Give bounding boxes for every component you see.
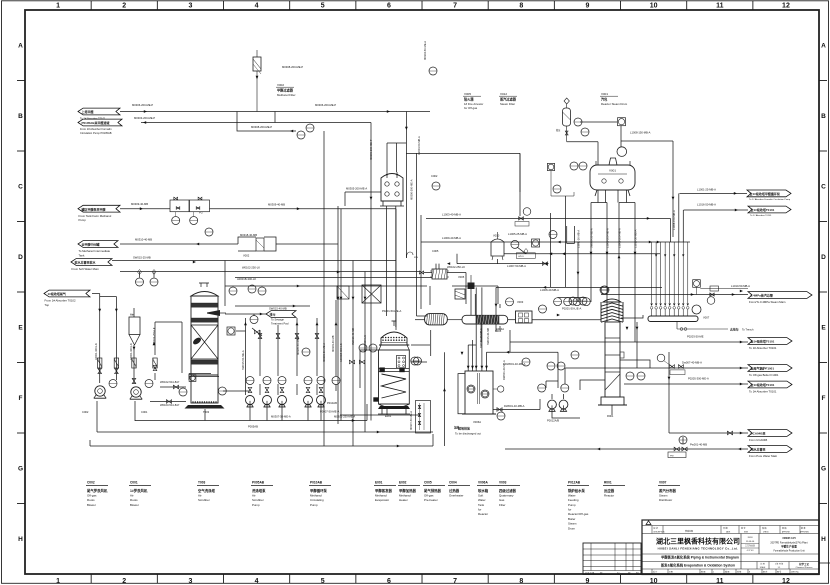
svg-text:From 1# Absorber Formalin: From 1# Absorber Formalin — [80, 127, 112, 131]
svg-text:Circulation Pump P0105AB: Circulation Pump P0105AB — [80, 131, 112, 135]
svg-text:空气洗涤塔: 空气洗涤塔 — [198, 488, 216, 493]
svg-text:Methanol: Methanol — [375, 493, 387, 497]
svg-text:汽包: 汽包 — [601, 97, 608, 102]
svg-text:E: E — [18, 325, 23, 332]
svg-text:去1#吸收塔T0101: 去1#吸收塔T0101 — [751, 339, 775, 344]
svg-text:纯水总管来: 纯水总管来 — [751, 447, 767, 452]
svg-text:SW015-50-ME-A: SW015-50-ME-A — [241, 350, 245, 370]
svg-text:P005AB: P005AB — [248, 425, 258, 429]
svg-text:W0103-50-LB-P: W0103-50-LB-P — [160, 403, 179, 407]
svg-text:From Pure Water Main: From Pure Water Main — [749, 454, 778, 458]
svg-text:W0102-250-LK: W0102-250-LK — [242, 266, 260, 270]
svg-text:L1011-50-MB-A: L1011-50-MB-A — [577, 230, 581, 248]
svg-text:M2: M2 — [600, 572, 602, 574]
svg-text:去甲醇中间罐: 去甲醇中间罐 — [82, 242, 100, 247]
svg-text:排污: 排污 — [270, 312, 276, 317]
svg-text:Pump: Pump — [79, 218, 87, 222]
svg-text:甲醇循环泵: 甲醇循环泵 — [310, 488, 328, 493]
svg-text:To Trench: To Trench — [742, 328, 754, 332]
svg-text:Steam: Steam — [568, 522, 577, 526]
svg-text:DESCRIPTION: DESCRIPTION — [654, 531, 666, 533]
svg-text:过热器: 过热器 — [449, 488, 460, 493]
svg-text:1#罗茨风机: 1#罗茨风机 — [130, 488, 148, 493]
svg-text:Drum: Drum — [568, 526, 576, 530]
svg-text:甲醛生产装置: 甲醛生产装置 — [781, 545, 797, 549]
svg-text:Air: Air — [130, 313, 134, 317]
svg-text:M0309-40-MB: M0309-40-MB — [131, 202, 148, 206]
svg-text:V002: V002 — [243, 254, 250, 258]
svg-text:Heater: Heater — [399, 498, 408, 502]
svg-text:L1006-200-MB-A: L1006-200-MB-A — [606, 228, 610, 248]
svg-text:V007: V007 — [659, 480, 667, 484]
svg-text:P0012A/B: P0012A/B — [547, 419, 559, 423]
svg-text:SW015-25-MB: SW015-25-MB — [133, 256, 151, 260]
svg-text:To 1# Absorber T0101: To 1# Absorber T0101 — [750, 214, 772, 217]
svg-text:9: 9 — [585, 578, 589, 585]
svg-text:F: F — [19, 395, 23, 402]
svg-text:Formaldehyde Production Unit: Formaldehyde Production Unit — [773, 550, 804, 553]
svg-text:3: 3 — [188, 3, 192, 10]
svg-text:8: 8 — [519, 3, 523, 10]
svg-text:Soft: Soft — [478, 493, 483, 497]
svg-text:L1008-150-MB-A: L1008-150-MB-A — [630, 131, 651, 135]
svg-text:蒸发&氧化系统 Evaporation & Oxidati: 蒸发&氧化系统 Evaporation & Oxidation System — [661, 562, 735, 567]
svg-text:10: 10 — [650, 3, 658, 10]
svg-text:Reactor: Reactor — [604, 493, 614, 497]
svg-text:C004: C004 — [449, 480, 457, 484]
svg-text:C005: C005 — [424, 480, 432, 484]
svg-text:DWG No.: DWG No. — [791, 572, 800, 574]
svg-text:From 1# Absorber T0102: From 1# Absorber T0102 — [45, 299, 76, 303]
svg-text:200TPD Formaldehyde(37%) Plant: 200TPD Formaldehyde(37%) Plant — [770, 542, 808, 545]
svg-text:To 1# Absorber T0101: To 1# Absorber T0101 — [749, 346, 777, 350]
svg-text:8: 8 — [749, 572, 750, 574]
svg-text:V012: V012 — [500, 92, 507, 96]
svg-text:P0201-50-L/E-A: P0201-50-L/E-A — [562, 307, 581, 311]
svg-text:V001: V001 — [609, 169, 616, 173]
svg-text:P005AB: P005AB — [252, 480, 265, 484]
svg-text:湖北三里枫香科技有限公司: 湖北三里枫香科技有限公司 — [656, 537, 740, 546]
svg-text:V003: V003 — [499, 480, 507, 484]
svg-text:P010AB: P010AB — [327, 401, 337, 405]
svg-text:2018: 2018 — [748, 537, 754, 539]
svg-text:M0308-200-ME-P: M0308-200-ME-P — [282, 65, 303, 69]
svg-text:12: 12 — [782, 3, 790, 10]
svg-text:Pump: Pump — [568, 503, 576, 507]
svg-text:Reactor Steam Drum: Reactor Steam Drum — [601, 102, 628, 106]
svg-text:H: H — [821, 536, 826, 543]
svg-text:尾气罗茨风机: 尾气罗茨风机 — [86, 488, 108, 493]
svg-text:L1016-50-MB-A: L1016-50-MB-A — [697, 203, 716, 207]
svg-text:T003: T003 — [198, 480, 205, 484]
svg-text:Treatment Pool: Treatment Pool — [271, 322, 289, 326]
svg-text:G: G — [821, 466, 826, 473]
svg-text:11.05.06: 11.05.06 — [746, 541, 755, 543]
svg-text:Boiler: Boiler — [568, 517, 575, 521]
svg-text:5: 5 — [321, 578, 325, 585]
svg-text:4 27 43: 4 27 43 — [747, 550, 755, 552]
svg-text:C002: C002 — [87, 480, 95, 484]
svg-text:Pump: Pump — [310, 503, 318, 507]
svg-text:H: H — [18, 536, 23, 543]
svg-text:L1015-50-MB-A: L1015-50-MB-A — [634, 229, 638, 248]
svg-text:1:1: 1:1 — [778, 567, 781, 569]
svg-text:E001: E001 — [375, 480, 383, 484]
svg-text:UCA04B来: UCA04B来 — [751, 431, 767, 436]
svg-text:Top: Top — [45, 303, 50, 307]
svg-text:Filter: Filter — [499, 503, 505, 507]
svg-text:D: D — [821, 254, 826, 261]
svg-text:上塔甲醛: 上塔甲醛 — [82, 109, 94, 114]
svg-text:P012AB: P012AB — [568, 480, 581, 484]
svg-text:Scrubber: Scrubber — [252, 498, 264, 502]
svg-text:A0001-300-LK: A0001-300-LK — [94, 343, 98, 360]
svg-text:P0105AB来甲醛溶液: P0105AB来甲醛溶液 — [82, 120, 110, 125]
svg-text:C2003-50-MB-A: C2003-50-MB-A — [417, 136, 421, 155]
svg-text:Distributor: Distributor — [659, 498, 672, 502]
svg-text:Water: Water — [568, 493, 576, 497]
svg-text:From Soft Water Main: From Soft Water Main — [72, 267, 100, 271]
svg-text:四级过滤器: 四级过滤器 — [499, 488, 517, 493]
svg-text:R001: R001 — [604, 480, 612, 484]
svg-text:洗涤塔泵: 洗涤塔泵 — [252, 488, 266, 493]
svg-text:3.2: 3.2 — [617, 572, 619, 574]
svg-text:L1003-40-MB-A: L1003-40-MB-A — [442, 213, 461, 217]
svg-text:软水箱: 软水箱 — [478, 488, 489, 493]
svg-text:DW001-40-MB-A: DW001-40-MB-A — [502, 360, 506, 380]
svg-text:M0306-200-ME-P: M0306-200-ME-P — [315, 103, 336, 107]
svg-text:Water: Water — [478, 498, 486, 502]
svg-text:4: 4 — [255, 3, 259, 10]
svg-text:T003: T003 — [203, 410, 210, 414]
svg-text:软水总管来软水: 软水总管来软水 — [75, 260, 97, 265]
svg-text:Roots: Roots — [130, 498, 138, 502]
svg-text:Reactor: Reactor — [478, 512, 488, 516]
svg-text:B: B — [18, 113, 23, 120]
svg-text:蒸汽过滤器: 蒸汽过滤器 — [500, 97, 517, 102]
svg-text:M0307-50-ME-A: M0307-50-ME-A — [409, 411, 413, 430]
svg-text:Methanol: Methanol — [399, 493, 411, 497]
svg-text:SW009-50-MB-A: SW009-50-MB-A — [590, 228, 594, 248]
svg-text:V001: V001 — [601, 92, 608, 96]
svg-text:M0306-200-ME-A: M0306-200-ME-A — [410, 179, 414, 200]
svg-text:Feeding: Feeding — [568, 498, 579, 502]
svg-text:7: 7 — [453, 578, 457, 585]
svg-text:Air: Air — [198, 493, 202, 497]
svg-text:From/To 0.4MPa Steam Main: From/To 0.4MPa Steam Main — [749, 300, 786, 304]
svg-text:L1005-25-MB-A: L1005-25-MB-A — [508, 232, 527, 236]
svg-text:Tank: Tank — [79, 253, 86, 257]
svg-text:9: 9 — [585, 3, 589, 10]
svg-text:甲醇蒸发器: 甲醇蒸发器 — [375, 488, 393, 493]
svg-text:Overheater: Overheater — [449, 493, 463, 497]
svg-text:蒸汽分布器: 蒸汽分布器 — [659, 488, 677, 493]
svg-text:11: 11 — [716, 3, 724, 10]
svg-text:for Off-gas: for Off-gas — [464, 106, 478, 110]
svg-text:L1010-50-MB-A: L1010-50-MB-A — [731, 284, 750, 288]
svg-text:5: 5 — [321, 3, 325, 10]
svg-text:Evaporator: Evaporator — [375, 498, 389, 502]
svg-text:F: F — [822, 395, 826, 402]
svg-text:P0205-300-ME-A: P0205-300-ME-A — [688, 377, 709, 381]
svg-text:去1#吸收塔甲醛循环泵: 去1#吸收塔甲醛循环泵 — [750, 191, 780, 196]
svg-text:7: 7 — [453, 3, 457, 10]
svg-text:尾气预热器: 尾气预热器 — [423, 488, 442, 493]
svg-text:SCALE: SCALE — [760, 566, 766, 569]
svg-text:V006A: V006A — [478, 480, 488, 484]
svg-text:2: 2 — [122, 3, 126, 10]
svg-text:就地排放: 就地排放 — [458, 426, 471, 431]
svg-text:3: 3 — [188, 578, 192, 585]
svg-text:6: 6 — [387, 3, 391, 10]
svg-text:A: A — [821, 43, 826, 50]
svg-text:1: 1 — [56, 578, 60, 585]
svg-text:DW001-40-MB-A: DW001-40-MB-A — [504, 404, 525, 408]
svg-text:8: 8 — [519, 578, 523, 585]
svg-text:甲醇加热器: 甲醇加热器 — [399, 488, 417, 493]
svg-text:V007: V007 — [703, 316, 710, 320]
svg-text:M0305-200-ME-A: M0305-200-ME-A — [346, 187, 367, 191]
svg-text:1: 1 — [56, 3, 60, 10]
svg-text:Roots: Roots — [87, 498, 95, 502]
svg-text:V010: V010 — [493, 234, 500, 238]
svg-text:Scrubber: Scrubber — [198, 498, 210, 502]
svg-text:0.4MPa蒸汽总管: 0.4MPa蒸汽总管 — [751, 293, 773, 298]
svg-text:反应器: 反应器 — [604, 488, 615, 493]
svg-text:Off-gas: Off-gas — [87, 493, 97, 497]
svg-text:P010AB: P010AB — [310, 480, 323, 484]
svg-text:V006A: V006A — [473, 420, 481, 424]
svg-text:V005: V005 — [458, 275, 465, 279]
svg-text:L1008-40-MB-A: L1008-40-MB-A — [540, 288, 559, 292]
svg-text:1: 1 — [713, 572, 714, 574]
svg-text:27 33 31 3A: 27 33 31 3A — [585, 571, 595, 574]
svg-text:M0304-50-ME-A: M0304-50-ME-A — [423, 41, 427, 60]
svg-text:M0308-200-ME-P: M0308-200-ME-P — [251, 125, 272, 129]
svg-text:1#吸收塔尾气: 1#吸收塔尾气 — [48, 291, 66, 296]
svg-text:甲醇蒸发&氧化系统 Piping & Instrumenta: 甲醇蒸发&氧化系统 Piping & Instrumental Diagram — [661, 555, 739, 560]
svg-text:D: D — [18, 254, 23, 261]
svg-text:加药: 加药 — [453, 426, 460, 430]
svg-text:for: for — [478, 508, 481, 512]
svg-text:甲醇过滤器: 甲醇过滤器 — [277, 88, 294, 93]
svg-text:Air: Air — [130, 493, 134, 497]
svg-text:FG: FG — [199, 211, 203, 215]
svg-text:Tank: Tank — [478, 503, 485, 507]
svg-text:Chemical Process: Chemical Process — [796, 566, 813, 569]
svg-text:M0303-40-MB: M0303-40-MB — [331, 335, 335, 352]
svg-text:化学工艺: 化学工艺 — [799, 562, 810, 566]
svg-text:去1#吸收塔T0101: 去1#吸收塔T0101 — [751, 207, 775, 212]
svg-text:A: A — [18, 43, 23, 50]
svg-text:P0203-50-ME: P0203-50-ME — [687, 335, 704, 339]
svg-text:P0201-50-L/E-A: P0201-50-L/E-A — [382, 309, 401, 313]
svg-text:G: G — [18, 466, 23, 473]
svg-text:R001: R001 — [607, 414, 614, 418]
svg-text:罐区甲醇泵来甲醇: 罐区甲醇泵来甲醇 — [82, 206, 106, 211]
svg-text:Pump: Pump — [252, 503, 260, 507]
svg-text:HUBEI SANLI FENGXIANG TECHNOLO: HUBEI SANLI FENGXIANG TECHNOLOGY Co.,Ltd… — [658, 547, 739, 551]
svg-text:Steam Filter: Steam Filter — [500, 102, 515, 106]
svg-text:L1008-150-MB-A: L1008-150-MB-A — [672, 210, 676, 230]
svg-text:L1001-25-MB-A: L1001-25-MB-A — [697, 188, 716, 192]
svg-text:W4: W4 — [636, 572, 639, 574]
svg-text:Pre-heater: Pre-heater — [424, 498, 438, 502]
svg-text:B: B — [821, 113, 826, 120]
svg-text:Air: Air — [252, 493, 256, 497]
svg-text:Reactor/Off-gas: Reactor/Off-gas — [568, 512, 589, 516]
svg-text:P0007-50-ME-A: P0007-50-ME-A — [320, 410, 339, 414]
svg-text:M0306-200-ME-P: M0306-200-ME-P — [132, 103, 153, 107]
svg-text:M0318-40-MB: M0318-40-MB — [240, 233, 257, 237]
svg-text:Gas: Gas — [499, 498, 505, 502]
svg-text:M0307-50-ME-A: M0307-50-ME-A — [271, 415, 291, 419]
svg-text:Pw001-40-MB: Pw001-40-MB — [690, 443, 707, 447]
svg-text:W0102-50-LB-P: W0102-50-LB-P — [160, 380, 179, 384]
svg-text:LV101: LV101 — [518, 256, 525, 258]
svg-text:锅炉给水泵: 锅炉给水泵 — [568, 488, 586, 493]
svg-text:V002: V002 — [277, 83, 284, 87]
svg-text:10: 10 — [650, 578, 658, 585]
svg-text:Quaternary: Quaternary — [499, 493, 514, 497]
svg-text:C002: C002 — [82, 410, 89, 414]
svg-text:L1007-50-MB-A: L1007-50-MB-A — [507, 264, 526, 268]
svg-text:A0001-300-LK: A0001-300-LK — [129, 343, 133, 360]
svg-text:To 1# Absorber T0101: To 1# Absorber T0101 — [749, 390, 777, 394]
svg-text:Blower: Blower — [87, 503, 96, 507]
svg-text:12: 12 — [782, 578, 790, 585]
svg-text:SW015-40-MB: SW015-40-MB — [486, 328, 490, 345]
svg-text:阻火器: 阻火器 — [464, 97, 474, 102]
svg-text:E002: E002 — [399, 480, 407, 484]
svg-text:E: E — [821, 325, 826, 332]
svg-text:去尾气锅炉F1001: 去尾气锅炉F1001 — [751, 366, 775, 371]
svg-text:C005: C005 — [432, 249, 439, 253]
svg-text:2: 2 — [122, 578, 126, 585]
svg-text:去1#吸收塔T0101: 去1#吸收塔T0101 — [751, 382, 775, 387]
svg-text:C: C — [821, 184, 826, 191]
svg-text:To be discharged out: To be discharged out — [455, 432, 481, 436]
svg-text:L1003-200-MB-A: L1003-200-MB-A — [618, 228, 622, 248]
svg-text:W0102-250-LK: W0102-250-LK — [447, 265, 465, 269]
svg-text:Circulating: Circulating — [310, 498, 324, 502]
svg-text:C001: C001 — [141, 410, 148, 414]
svg-text:Blower: Blower — [130, 503, 139, 507]
svg-text:4: 4 — [255, 578, 259, 585]
svg-text:L1009-40-MB-A: L1009-40-MB-A — [442, 236, 461, 240]
svg-text:M3: M3 — [628, 572, 630, 574]
svg-text:Methanol: Methanol — [310, 493, 322, 497]
svg-text:11: 11 — [716, 578, 724, 585]
svg-text:To Off-gas Boiler F1001: To Off-gas Boiler F1001 — [749, 373, 779, 377]
svg-text:去地沟: 去地沟 — [730, 328, 739, 332]
svg-text:E001: E001 — [385, 414, 392, 418]
svg-text:From UCA04B: From UCA04B — [749, 438, 767, 442]
svg-text:Methanol Filter: Methanol Filter — [277, 93, 296, 97]
svg-text:C001: C001 — [130, 480, 138, 484]
svg-text:To 1# Absorber Formalin Circul: To 1# Absorber Formalin Circulation Pump — [749, 198, 791, 201]
svg-text:Dw007-40-MB-A: Dw007-40-MB-A — [682, 361, 702, 365]
svg-text:C002: C002 — [431, 174, 438, 178]
svg-text:6: 6 — [387, 578, 391, 585]
svg-text:for: for — [568, 508, 571, 512]
svg-text:#08037-0-PI: #08037-0-PI — [782, 537, 795, 540]
svg-text:V005: V005 — [464, 92, 471, 96]
svg-text:M0309-40-MB: M0309-40-MB — [268, 203, 285, 207]
svg-text:M0310-40-MB: M0310-40-MB — [135, 238, 152, 242]
svg-text:C: C — [18, 184, 23, 191]
svg-text:Off-gas: Off-gas — [424, 493, 434, 497]
svg-text:V003: V003 — [517, 300, 524, 304]
svg-text:To Sewage: To Sewage — [271, 318, 284, 322]
svg-text:SW015-40-MB: SW015-40-MB — [269, 307, 287, 311]
svg-text:M0303-200-ME-P: M0303-200-ME-P — [134, 116, 155, 120]
svg-text:CHECK: CHECK — [763, 531, 770, 533]
svg-text:Steam: Steam — [659, 493, 668, 497]
